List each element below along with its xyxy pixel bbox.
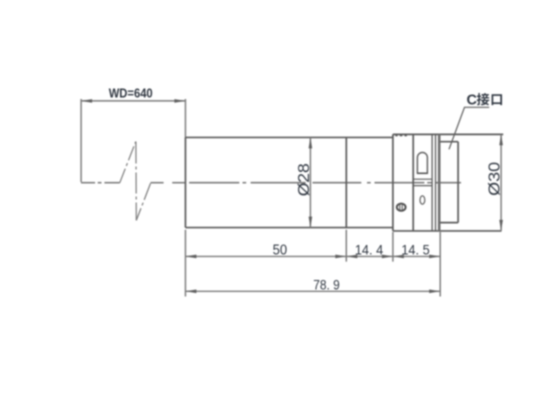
svg-text:Ø30: Ø30 [486, 162, 503, 196]
svg-text:14. 5: 14. 5 [401, 242, 429, 258]
svg-text:14. 4: 14. 4 [355, 242, 383, 258]
svg-text:Ø28: Ø28 [296, 163, 313, 196]
svg-text:C: C [466, 93, 477, 109]
svg-text:78. 9: 78. 9 [313, 277, 340, 293]
svg-text:50: 50 [273, 243, 288, 259]
svg-text:WD=640: WD=640 [109, 85, 153, 100]
